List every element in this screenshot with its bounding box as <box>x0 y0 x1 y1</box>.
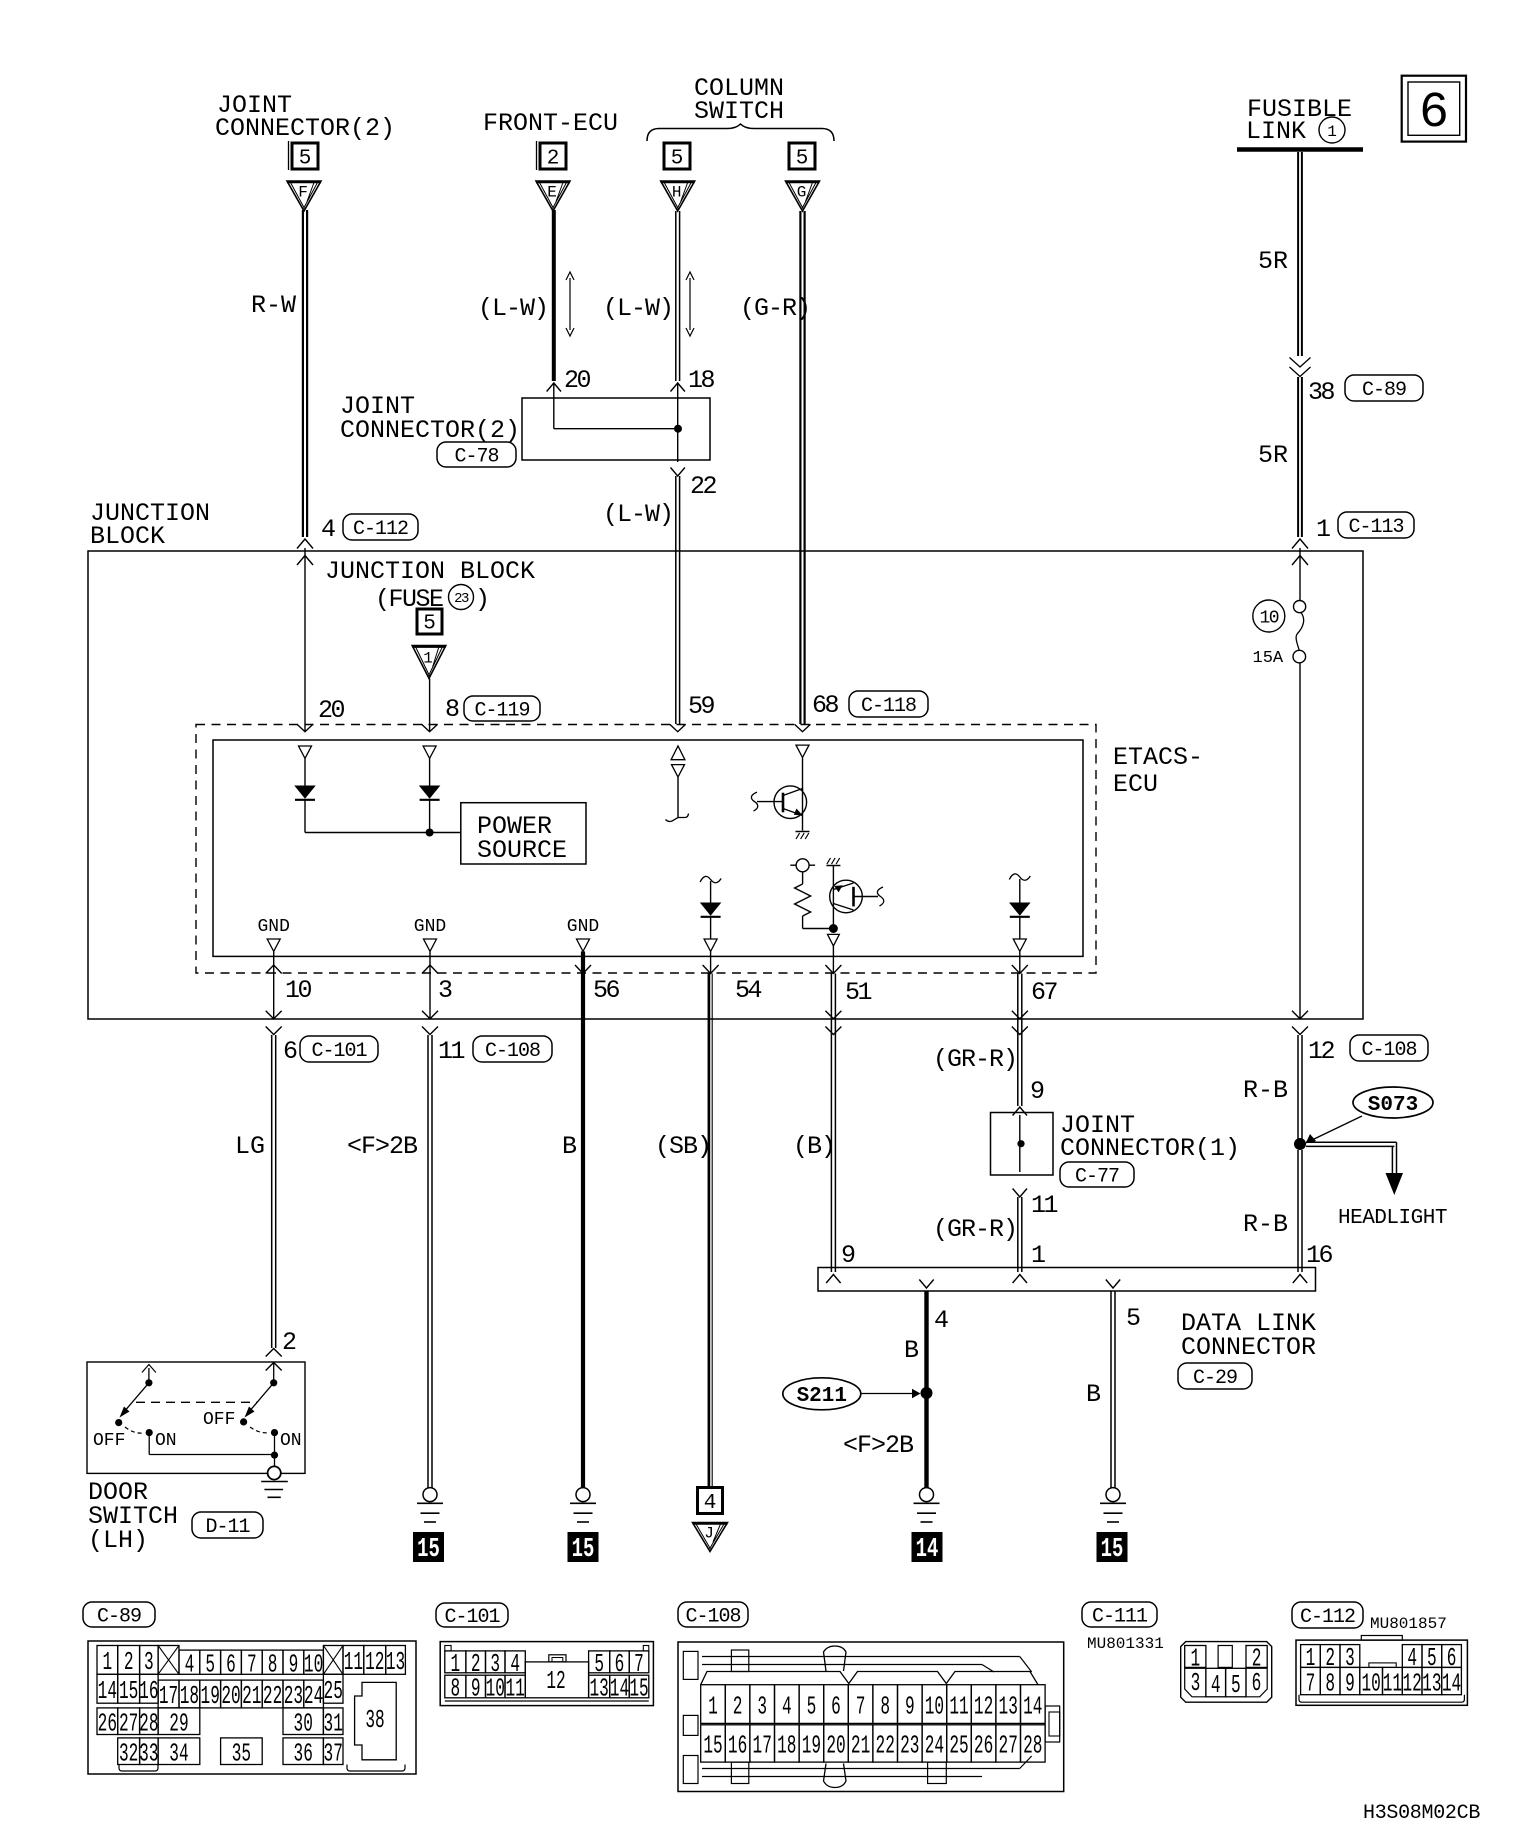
twist arrow mid <box>689 278 691 330</box>
twist arrow left <box>569 278 571 330</box>
wire (GR-R) pin67 lower <box>1017 1197 1019 1272</box>
ground B-56 wire <box>576 1488 590 1502</box>
svg-text:19: 19 <box>802 1732 821 1761</box>
svg-text:59: 59 <box>688 692 715 721</box>
svg-text:5: 5 <box>1126 1304 1141 1333</box>
svg-text:<F>2B: <F>2B <box>347 1132 418 1161</box>
fuse 10 circle top <box>1294 601 1306 613</box>
svg-text:H: H <box>672 184 682 202</box>
svg-text:19: 19 <box>201 1683 220 1712</box>
svg-text:23: 23 <box>900 1732 919 1761</box>
arrowheads at junction block pin 1 <box>1292 539 1308 549</box>
svg-text:14: 14 <box>1023 1693 1042 1722</box>
svg-text:C-118: C-118 <box>861 695 916 718</box>
svg-text:30: 30 <box>294 1710 313 1739</box>
svg-text:16: 16 <box>728 1732 747 1761</box>
headlight arrowhead <box>1386 1173 1404 1195</box>
right OFF contact <box>240 1418 247 1425</box>
svg-text:9: 9 <box>1345 1670 1355 1699</box>
svg-text:R-B: R-B <box>1243 1210 1288 1239</box>
arrowheads door switch entry <box>266 1349 282 1357</box>
svg-text:5: 5 <box>796 147 809 170</box>
svg-text:4: 4 <box>321 515 336 544</box>
C-108 top cap <box>824 1646 847 1671</box>
svg-text:OFF: OFF <box>93 1431 125 1451</box>
joint connector C-77 box <box>991 1113 1054 1176</box>
svg-text:CONNECTOR: CONNECTOR <box>1181 1333 1316 1362</box>
svg-text:BLOCK: BLOCK <box>90 522 165 551</box>
ground B pin5 <box>1106 1488 1120 1502</box>
svg-text:D-11: D-11 <box>205 1516 250 1539</box>
svg-text:9: 9 <box>841 1241 856 1270</box>
svg-text:34: 34 <box>169 1740 188 1769</box>
svg-text:1: 1 <box>1031 1241 1046 1270</box>
page number box 6 <box>1402 76 1466 142</box>
svg-text:28: 28 <box>139 1710 158 1739</box>
connector map C-112 body <box>1296 1640 1467 1705</box>
svg-text:10: 10 <box>285 976 312 1005</box>
svg-text:CONNECTOR(2): CONNECTOR(2) <box>340 416 520 445</box>
svg-text:21: 21 <box>851 1732 870 1761</box>
wire into C-78 <box>553 384 555 429</box>
svg-text:9: 9 <box>289 1651 299 1680</box>
svg-text:LG: LG <box>235 1132 265 1161</box>
svg-text:C-78: C-78 <box>454 446 498 469</box>
svg-text:15: 15 <box>572 1534 595 1564</box>
C-101 corner tabs <box>445 1646 451 1652</box>
connector count box 5 (H) <box>664 143 690 169</box>
C-89 latch tabs <box>119 1765 158 1772</box>
wire fuse to ETACS pin 8 <box>429 678 431 731</box>
svg-text:R-W: R-W <box>251 291 296 320</box>
svg-text:10: 10 <box>304 1651 323 1680</box>
inline connector chevrons 38 <box>1290 358 1311 368</box>
svg-text:5: 5 <box>423 613 436 636</box>
joint connector C-78 box <box>522 398 710 460</box>
svg-text:12: 12 <box>1308 1037 1335 1066</box>
svg-text:14: 14 <box>916 1534 939 1564</box>
svg-text:(G-R): (G-R) <box>740 294 810 323</box>
junction dot Q2 emitter <box>829 924 838 933</box>
svg-text:CONNECTOR(2): CONNECTOR(2) <box>215 114 395 143</box>
junction block bottom exit arrowheads <box>266 1011 282 1019</box>
bus wire to power source <box>305 832 461 834</box>
wire (L-W) from connector E <box>552 210 556 381</box>
svg-text:1: 1 <box>103 1649 113 1678</box>
svg-text:9: 9 <box>905 1693 915 1722</box>
arrowhead pin 20 C-78 <box>547 383 561 392</box>
svg-text:13: 13 <box>999 1693 1018 1722</box>
C-108 lower rails <box>702 1768 1020 1770</box>
wire B pin5 <box>1110 1291 1112 1488</box>
svg-text:3: 3 <box>144 1649 154 1678</box>
ground page ref 15 <box>413 1532 444 1562</box>
C-89 pins row2 <box>97 1674 118 1703</box>
C-108 collar band <box>701 1672 1038 1685</box>
connector F triangle <box>287 181 321 211</box>
svg-text:27: 27 <box>999 1732 1018 1761</box>
svg-text:32: 32 <box>119 1740 138 1769</box>
right switch pivot dot <box>270 1379 277 1386</box>
svg-text:37: 37 <box>324 1740 343 1769</box>
ground door switch <box>268 1466 281 1479</box>
svg-text:<F>2B: <F>2B <box>843 1431 914 1460</box>
svg-text:22: 22 <box>876 1732 895 1761</box>
left dashed link <box>125 1427 143 1433</box>
circled 23 <box>449 585 474 610</box>
left ON contact <box>146 1429 153 1436</box>
thick B wire pin 56 <box>581 951 585 1487</box>
POWER SOURCE box <box>461 803 586 864</box>
C-108 upper rails <box>702 1656 1020 1658</box>
svg-text:C-108: C-108 <box>485 1040 540 1063</box>
svg-text:12: 12 <box>974 1693 993 1722</box>
svg-text:9: 9 <box>471 1675 481 1704</box>
C-112 bottom tray <box>1299 1695 1464 1703</box>
svg-text:E: E <box>547 184 557 202</box>
ETACS-ECU inner box <box>213 740 1083 956</box>
svg-text:G: G <box>797 184 807 202</box>
svg-text:21: 21 <box>242 1683 261 1712</box>
svg-text:11: 11 <box>949 1693 968 1722</box>
door switch box <box>87 1362 305 1473</box>
svg-text:28: 28 <box>1023 1732 1042 1761</box>
svg-text:2: 2 <box>547 147 560 170</box>
left switch stem arrow <box>148 1368 150 1383</box>
svg-text:23: 23 <box>454 591 469 607</box>
connector H triangle <box>661 181 695 211</box>
svg-text:25: 25 <box>949 1732 968 1761</box>
svg-text:B: B <box>904 1336 919 1365</box>
svg-text:5: 5 <box>807 1693 817 1722</box>
svg-text:6: 6 <box>283 1037 298 1066</box>
svg-text:C-119: C-119 <box>474 700 529 723</box>
S073 arrow <box>1312 1116 1362 1140</box>
svg-text:11: 11 <box>1031 1191 1058 1220</box>
svg-text:56: 56 <box>593 976 620 1005</box>
right dashed link <box>250 1427 269 1433</box>
data link arrowheads <box>826 1275 840 1284</box>
svg-text:33: 33 <box>139 1740 158 1769</box>
wire B pin4 thick <box>924 1291 928 1488</box>
svg-text:17: 17 <box>753 1732 772 1761</box>
svg-text:ECU: ECU <box>1113 770 1158 799</box>
svg-text:(SB): (SB) <box>655 1132 711 1161</box>
svg-text:7: 7 <box>856 1693 866 1722</box>
svg-text:12: 12 <box>546 1668 565 1697</box>
svg-text:4: 4 <box>185 1651 195 1680</box>
wire 5R from fusible link <box>1297 152 1299 356</box>
svg-text:LINK: LINK <box>1246 117 1306 146</box>
C-89 pins row1 <box>97 1646 118 1675</box>
pin 59 internal triangles <box>671 746 685 760</box>
svg-text:FRONT-ECU: FRONT-ECU <box>483 109 618 138</box>
wires GND triangles to dashed edge <box>273 951 275 966</box>
svg-text:1: 1 <box>423 650 433 668</box>
entry arrowheads ETACS top <box>297 724 313 732</box>
svg-text:18: 18 <box>688 366 715 395</box>
C-89 pin 38 cavity <box>355 1682 397 1759</box>
lever link dashed <box>136 1401 257 1403</box>
svg-text:36: 36 <box>294 1740 313 1769</box>
wire (GR-R) pin67 upper <box>1017 974 1019 1107</box>
wire below fuse to block bottom <box>1299 663 1301 1019</box>
svg-text:C-111: C-111 <box>1092 1606 1148 1629</box>
svg-text:(L-W): (L-W) <box>603 500 673 529</box>
pin 67 internal triangle <box>1013 939 1026 951</box>
pin 68 wire to transistor <box>802 758 804 792</box>
svg-text:29: 29 <box>169 1710 188 1739</box>
svg-text:ON: ON <box>155 1431 177 1451</box>
svg-text:5: 5 <box>299 147 312 170</box>
svg-text:26: 26 <box>974 1732 993 1761</box>
junction block outline <box>88 551 1363 1019</box>
fuse triangle 1 <box>412 646 446 679</box>
svg-text:11: 11 <box>505 1675 524 1704</box>
svg-text:7: 7 <box>1306 1670 1316 1699</box>
svg-text:1: 1 <box>708 1693 718 1722</box>
fusible link bus bar <box>1237 147 1363 152</box>
arrowhead pin 18 C-78 <box>671 383 685 392</box>
wire pin18 through C-78 <box>677 384 679 462</box>
svg-text:1: 1 <box>1316 515 1331 544</box>
left OFF contact <box>115 1419 122 1426</box>
connector G triangle <box>786 181 820 211</box>
wire (B) pin51 <box>830 974 832 1273</box>
svg-text:38: 38 <box>1308 378 1335 407</box>
svg-text:C-108: C-108 <box>1361 1039 1416 1062</box>
svg-text:6: 6 <box>831 1693 841 1722</box>
S211 arrow <box>861 1393 914 1395</box>
diode pin 8 <box>420 786 439 798</box>
pin 67 squiggle <box>1009 874 1030 880</box>
splice S211 <box>921 1387 933 1399</box>
svg-text:MU801331: MU801331 <box>1087 1635 1164 1653</box>
wire (F)2B <box>427 1035 429 1488</box>
arrowheads at junction block pin 4 <box>297 539 313 549</box>
connector E triangle <box>536 181 570 211</box>
svg-text:C-113: C-113 <box>1348 516 1403 539</box>
svg-text:16: 16 <box>1306 1241 1333 1270</box>
svg-text:10: 10 <box>925 1693 944 1722</box>
svg-text:6: 6 <box>1419 85 1449 142</box>
svg-text:15: 15 <box>703 1732 722 1761</box>
switch output wires <box>148 1433 150 1455</box>
junction dot C-77 <box>1017 1140 1024 1147</box>
svg-text:31: 31 <box>324 1710 343 1739</box>
junction dot in C-78 <box>674 425 682 433</box>
svg-text:25: 25 <box>324 1678 343 1707</box>
svg-text:15: 15 <box>629 1675 648 1704</box>
pin 54 internal triangle <box>704 939 717 951</box>
headlight branch double line <box>1306 1141 1397 1143</box>
svg-text:4: 4 <box>1211 1671 1221 1700</box>
svg-text:13: 13 <box>386 1649 405 1678</box>
connector map C-89 label <box>83 1602 155 1627</box>
left switch pivot dot <box>145 1379 152 1386</box>
connector map C-111 label <box>1082 1602 1157 1627</box>
svg-text:5R: 5R <box>1258 441 1288 470</box>
svg-text:20: 20 <box>318 696 345 725</box>
svg-text:22: 22 <box>690 472 717 501</box>
svg-text:67: 67 <box>1031 978 1058 1007</box>
svg-text:S211: S211 <box>797 1385 847 1408</box>
svg-text:27: 27 <box>119 1710 138 1739</box>
data link connector bar C-29 <box>818 1268 1316 1292</box>
pin 20 internal wire <box>304 758 306 786</box>
svg-text:14: 14 <box>610 1675 629 1704</box>
C-108 pin grid <box>701 1685 726 1724</box>
svg-text:): ) <box>475 585 490 614</box>
svg-text:C-77: C-77 <box>1075 1166 1119 1189</box>
wire (L-W) pin22 to ETACS pin 59 <box>675 476 677 724</box>
diode pin 20 <box>295 786 314 798</box>
wires to junction block bottom <box>273 966 275 1019</box>
svg-text:11: 11 <box>438 1037 465 1066</box>
svg-text:15: 15 <box>119 1678 138 1707</box>
pin 51 internal triangle <box>828 934 840 946</box>
wire pin4 to ETACS pin20 <box>304 548 306 731</box>
wire LG <box>271 1035 273 1348</box>
ETACS-ECU dashed boundary <box>196 725 1096 974</box>
brace over column switch connectors <box>647 124 834 141</box>
circled 1 <box>1319 117 1345 143</box>
wire R-W from connector F <box>302 210 304 537</box>
ground page ref 15 <box>568 1532 599 1562</box>
connector count box 2 (E) <box>536 141 538 170</box>
svg-text:B: B <box>1086 1380 1101 1409</box>
svg-text:8: 8 <box>268 1651 278 1680</box>
svg-text:GND: GND <box>567 917 599 937</box>
C-108 bottom cap <box>824 1764 847 1788</box>
C-108 left tabs <box>683 1651 698 1679</box>
svg-text:5: 5 <box>205 1651 215 1680</box>
ground B pin4 <box>920 1488 934 1502</box>
svg-text:51: 51 <box>845 978 872 1007</box>
svg-text:20: 20 <box>564 366 591 395</box>
svg-text:7: 7 <box>247 1651 257 1680</box>
wire above fuse <box>1299 548 1301 601</box>
svg-text:5R: 5R <box>1258 247 1288 276</box>
svg-text:GND: GND <box>414 917 446 937</box>
svg-text:38: 38 <box>365 1707 384 1736</box>
diode pin 54 <box>701 903 720 915</box>
transistor Q2 <box>830 880 863 913</box>
fuse 10 element curve <box>1296 613 1304 651</box>
svg-text:(L-W): (L-W) <box>478 294 548 323</box>
chassis ground Q2 collector <box>826 865 840 867</box>
svg-text:C-108: C-108 <box>685 1606 740 1629</box>
arrowhead C-77 entry <box>1013 1107 1027 1116</box>
connector count box 5 (G) <box>789 143 815 169</box>
svg-text:24: 24 <box>925 1732 944 1761</box>
svg-text:JUNCTION BLOCK: JUNCTION BLOCK <box>325 557 535 586</box>
svg-text:15A: 15A <box>1253 649 1284 668</box>
svg-text:68: 68 <box>812 691 839 720</box>
svg-text:3: 3 <box>1191 1670 1201 1699</box>
svg-text:35: 35 <box>232 1740 251 1769</box>
svg-text:B: B <box>562 1132 577 1161</box>
svg-text:5: 5 <box>671 147 684 170</box>
fuse 10 circle bottom <box>1293 650 1306 663</box>
svg-text:GND: GND <box>257 917 289 937</box>
termination box 4 + triangle J <box>698 1488 723 1514</box>
svg-text:6: 6 <box>1252 1670 1262 1699</box>
pin 8 internal wire <box>429 758 431 786</box>
ground (F)2B wire <box>423 1488 437 1502</box>
connector map C-108 body <box>678 1642 1064 1792</box>
svg-text:20: 20 <box>826 1732 845 1761</box>
svg-text:1: 1 <box>1327 123 1337 141</box>
svg-text:3: 3 <box>438 976 453 1005</box>
wire (G-R) from connector G to ETACS pin 68 <box>799 211 801 724</box>
svg-text:18: 18 <box>777 1732 796 1761</box>
svg-text:S073: S073 <box>1368 1094 1418 1117</box>
pin 59 internal wire and hook <box>677 777 679 817</box>
terminal circle <box>790 864 815 866</box>
svg-text:C-112: C-112 <box>1300 1606 1355 1629</box>
diode pin 67 <box>1010 903 1029 915</box>
fuse count box 5 <box>417 609 442 634</box>
right switch stem <box>273 1362 275 1383</box>
svg-text:8: 8 <box>451 1675 461 1704</box>
connector map C-108 label <box>678 1602 748 1627</box>
svg-text:20: 20 <box>221 1683 240 1712</box>
resistor R <box>802 872 804 884</box>
svg-text:C-29: C-29 <box>1193 1367 1237 1390</box>
svg-text:C-89: C-89 <box>97 1606 141 1629</box>
C-101 pin 12 cavity <box>525 1662 588 1698</box>
svg-text:4: 4 <box>704 1492 717 1515</box>
bus wire inside C-78 <box>554 428 678 430</box>
C-108 right latch <box>1045 1706 1060 1742</box>
pin 68 internal triangle <box>796 745 809 757</box>
svg-text:C-89: C-89 <box>1362 379 1406 402</box>
svg-text:ETACS-: ETACS- <box>1113 743 1203 772</box>
svg-text:MU801857: MU801857 <box>1370 1615 1447 1633</box>
circled 10 <box>1253 600 1285 632</box>
svg-text:8: 8 <box>1325 1670 1335 1699</box>
C-89 pins row3 <box>97 1708 118 1735</box>
svg-text:HEADLIGHT: HEADLIGHT <box>1338 1207 1447 1230</box>
svg-text:16: 16 <box>139 1678 158 1707</box>
svg-text:OFF: OFF <box>203 1410 235 1430</box>
svg-text:2: 2 <box>282 1328 297 1357</box>
svg-text:J: J <box>704 1525 714 1543</box>
svg-text:C-112: C-112 <box>353 518 408 541</box>
connector map C-112 label <box>1292 1602 1363 1628</box>
wire (SB) thick+thin <box>708 974 711 1488</box>
wire (L-W) from connector H <box>675 211 677 381</box>
svg-text:C-101: C-101 <box>311 1040 367 1063</box>
svg-text:F: F <box>298 184 308 202</box>
svg-text:12: 12 <box>365 1649 384 1678</box>
splice S073 <box>1294 1138 1306 1150</box>
svg-text:12: 12 <box>1402 1670 1421 1699</box>
arrowhead pin 22 exit <box>671 468 685 477</box>
wire R-B upper <box>1297 1035 1299 1141</box>
pin 8 internal triangle <box>423 746 436 758</box>
svg-text:(B): (B) <box>793 1132 835 1161</box>
svg-text:C-101: C-101 <box>444 1606 500 1629</box>
S073 ellipse <box>1353 1087 1433 1118</box>
svg-text:4: 4 <box>782 1693 792 1722</box>
svg-text:10: 10 <box>486 1675 505 1704</box>
svg-text:54: 54 <box>735 976 762 1005</box>
svg-text:8: 8 <box>880 1693 890 1722</box>
connector map C-101 body <box>440 1642 653 1706</box>
chassis ground Q1 <box>796 831 810 833</box>
